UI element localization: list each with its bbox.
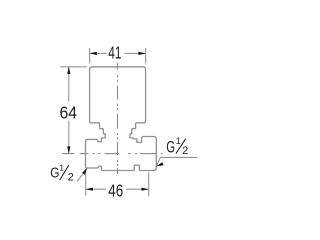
dim 41: extension line right [145,48,147,63]
svg-text:G: G [166,139,175,157]
horizontal port centerline [62,153,163,155]
dim 46: extension line right [148,172,150,196]
vertical centerline [117,63,119,174]
svg-text:1: 1 [59,163,64,173]
svg-text:64: 64 [60,102,78,122]
G1/2 label left: leader line [77,169,86,181]
dim 41: dimension line left segment [90,52,106,54]
dim 64: arrow up [67,67,70,74]
dim 46: dimension line right segment [126,188,148,190]
dim 64: dimension line top segment [68,67,70,101]
svg-text:46: 46 [108,181,123,201]
svg-text:1: 1 [176,136,181,146]
dim 41: dimension line right segment [125,52,146,54]
dim 46: arrow right [142,188,149,191]
svg-text:41: 41 [108,43,121,63]
dim 64: extension line top [60,66,86,68]
dim 41: arrow left [90,52,97,55]
svg-text:G: G [50,164,59,181]
G1/2 label right: fraction slash [176,139,186,154]
G1/2 label right: leader arrow [156,162,164,166]
valve body outline [86,67,157,171]
G1/2 label left: leader arrow [82,168,87,175]
svg-text:2: 2 [182,145,188,157]
dim 41: extension line left [89,48,91,63]
dim 64: arrow down [67,146,70,153]
dim 46: arrow left [86,188,93,191]
svg-text:2: 2 [68,171,74,183]
dim 46: dimension line left segment [86,188,106,190]
G1/2 label left: fraction slash [60,165,69,180]
G1/2 label right: leader line [157,157,198,165]
dim 64: dimension line bottom segment [68,121,70,153]
dim 41: arrow right [138,52,145,55]
dim 46: extension line left [85,173,87,196]
